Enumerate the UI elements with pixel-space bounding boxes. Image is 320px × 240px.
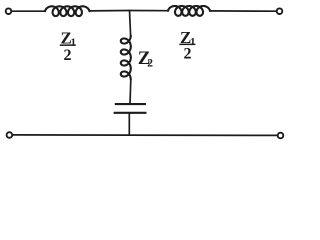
wire top-middle xyxy=(90,10,169,12)
terminal bottom-left xyxy=(7,132,13,138)
fraction bar left xyxy=(60,44,76,46)
terminal top-right xyxy=(277,8,283,14)
wire top-right lead xyxy=(210,10,276,12)
wire bottom rail xyxy=(12,134,277,137)
capacitor bottom plate xyxy=(114,112,147,114)
wire capacitor to bottom rail xyxy=(128,113,130,135)
wire junction to coil Z2 xyxy=(130,11,131,36)
svg-text:2: 2 xyxy=(147,57,153,69)
terminal bottom-right xyxy=(278,133,284,139)
fraction bar right xyxy=(179,44,195,46)
inductor Z1/2 left xyxy=(45,6,90,16)
wire top-left lead xyxy=(12,10,45,12)
wire coil Z2 to capacitor xyxy=(129,80,132,105)
capacitor top plate xyxy=(115,103,146,105)
svg-text:2: 2 xyxy=(64,47,72,64)
svg-text:2: 2 xyxy=(184,45,192,62)
inductor Z1/2 right xyxy=(168,6,210,16)
inductor Z2 xyxy=(121,36,131,80)
terminal top-left xyxy=(6,8,12,14)
